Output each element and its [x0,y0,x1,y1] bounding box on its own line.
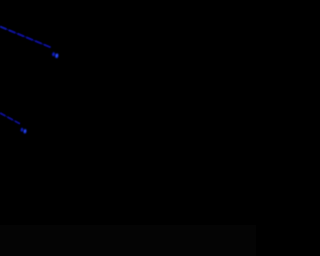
wire: blue trail line 2 (lower) [0,113,20,124]
node A: double dot sprite 1 [52,52,59,58]
node B: double dot sprite 2 [20,128,26,134]
wire: blue trail line 1 (upper) [0,27,51,48]
faint lighter floor band [0,225,256,256]
